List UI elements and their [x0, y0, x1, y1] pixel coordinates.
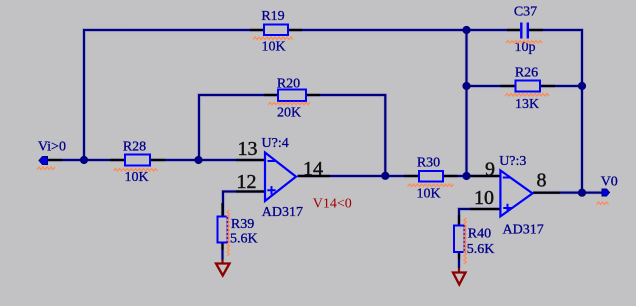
svg-text:20K: 20K — [277, 106, 301, 121]
squiggle under port Vi — [37, 167, 55, 170]
pin lead 9 of U?:3 — [470, 175, 500, 177]
svg-text:Vi>0: Vi>0 — [38, 140, 66, 155]
wire halo R26 line — [467, 84, 583, 88]
svg-text:13K: 13K — [515, 97, 539, 112]
svg-text:AD317: AD317 — [262, 205, 303, 220]
label Vi>0 — [38, 140, 66, 155]
op-amp U?:3 — [500, 170, 532, 216]
svg-text:12: 12 — [237, 171, 257, 193]
value 10K of R30 — [416, 186, 440, 201]
junction node X top — [462, 26, 470, 34]
wire R20 feedback branch — [199, 95, 385, 176]
label R19 — [261, 9, 284, 24]
wire R40 to ground — [458, 252, 460, 268]
value 10K of R19 — [261, 39, 285, 54]
capacitor C37 — [521, 23, 528, 39]
svg-text:9: 9 — [485, 159, 495, 181]
wire halo pin12 branch — [223, 192, 266, 261]
svg-text:10K: 10K — [124, 170, 148, 185]
svg-text:V14<0: V14<0 — [313, 196, 352, 211]
pin lead R19 — [250, 29, 302, 31]
pin lead 14 of U?:4 — [298, 175, 331, 177]
port Vi>0 — [39, 157, 48, 165]
resistor R19 — [264, 25, 288, 36]
resistor R26 — [516, 81, 541, 92]
label U?:3 — [499, 154, 526, 169]
resistor R28 — [125, 155, 150, 166]
value 5.6K of R40 — [467, 242, 495, 257]
label R40 — [468, 227, 491, 242]
pin number 13 — [238, 138, 258, 160]
squiggle under R19 — [253, 37, 293, 40]
label U?:4 — [262, 136, 289, 151]
svg-text:10: 10 — [474, 187, 494, 209]
value 20K of R20 — [277, 106, 301, 121]
label R30 — [417, 155, 440, 170]
pin lead 12 of U?:4 — [236, 190, 265, 192]
pin lead R40 — [458, 215, 460, 259]
pin number 14 — [303, 158, 323, 180]
pin number 10 — [474, 187, 494, 209]
squiggle under R20 — [268, 102, 310, 105]
pin lead R26 — [501, 85, 556, 87]
svg-text:10K: 10K — [261, 39, 285, 54]
pin number 8 — [537, 170, 547, 192]
svg-text:R19: R19 — [261, 9, 284, 24]
label AD317 of U?:4 — [262, 205, 303, 220]
svg-text:R39: R39 — [231, 217, 254, 232]
label R20 — [277, 77, 300, 92]
wire halo input line — [47, 158, 265, 162]
value 5.6K of R39 — [230, 232, 258, 247]
wire input line from port Vi to pin 13 — [47, 159, 265, 161]
value 10p of C37 — [515, 40, 536, 55]
ground below R40 — [453, 268, 466, 285]
wire halo mid vertical — [464, 30, 468, 176]
pin lead R20 — [264, 94, 320, 96]
svg-text:14: 14 — [303, 158, 323, 180]
pin lead C37 — [507, 29, 543, 31]
wire pin12 to R39 — [223, 192, 265, 217]
squiggle under R28 — [114, 169, 158, 172]
label C37 — [514, 4, 537, 19]
pin lead R30 — [404, 175, 458, 177]
resistor R20 — [278, 90, 306, 102]
ground below R39 — [216, 260, 230, 276]
resistor R39 — [218, 217, 228, 243]
junction node X at pin 9 — [462, 172, 470, 180]
op-amp U?:4 — [265, 153, 296, 202]
wire output1 to R30 to pin 9 — [298, 175, 501, 177]
svg-text:R40: R40 — [468, 227, 491, 242]
port V0 — [602, 189, 610, 196]
resistor R40 — [454, 226, 465, 253]
svg-text:R20: R20 — [277, 77, 300, 92]
svg-text:U?:3: U?:3 — [499, 154, 526, 169]
squiggle under C37 — [506, 41, 542, 44]
junction at input node — [80, 156, 88, 164]
svg-text:5.6K: 5.6K — [230, 232, 258, 247]
label V0 — [601, 174, 618, 189]
svg-text:13: 13 — [238, 138, 258, 160]
svg-text:R26: R26 — [515, 66, 538, 81]
squiggle beside R40 — [464, 218, 467, 264]
svg-text:C37: C37 — [514, 4, 537, 19]
junction output node at R26 — [578, 82, 586, 90]
pin lead 13 of U?:4 — [236, 159, 265, 161]
svg-text:U?:4: U?:4 — [262, 136, 289, 151]
label AD317 of U?:3 — [503, 223, 544, 238]
pin lead 10 of U?:3 — [470, 208, 500, 210]
squiggle under port V0 — [597, 202, 609, 205]
label R39 — [231, 217, 254, 232]
wire top feedback from input node through R19, C37 to right vertical — [84, 30, 582, 192]
wire R26 line — [467, 85, 583, 87]
pin lead R39 — [221, 203, 223, 250]
wire output2 to port V0 — [533, 192, 602, 194]
value 10K of R28 — [124, 170, 148, 185]
wire halo output2 line — [533, 191, 602, 195]
value 13K of R26 — [515, 97, 539, 112]
pin lead R28 — [110, 159, 165, 161]
svg-text:R28: R28 — [123, 140, 146, 155]
svg-text:AD317: AD317 — [503, 223, 544, 238]
label R28 — [123, 140, 146, 155]
junction at R20 tap — [194, 156, 202, 164]
svg-text:V0: V0 — [601, 174, 618, 189]
wire halo output1 line — [298, 174, 501, 178]
wire halo top feedback — [84, 30, 582, 192]
annotation V14<0 — [313, 196, 352, 211]
wire halo R20 branch — [199, 95, 385, 176]
svg-text:5.6K: 5.6K — [467, 242, 495, 257]
svg-text:R30: R30 — [417, 155, 440, 170]
resistor R30 — [419, 171, 443, 182]
wire halo pin10 branch — [459, 209, 500, 268]
svg-text:10K: 10K — [416, 186, 440, 201]
pin number 9 — [485, 159, 495, 181]
wire R39 to ground — [221, 243, 223, 261]
label R26 — [515, 66, 538, 81]
svg-text:8: 8 — [537, 170, 547, 192]
squiggle beside R39 — [227, 210, 230, 256]
wire mid vertical node X — [465, 30, 467, 176]
squiggle under R26 — [505, 94, 549, 97]
wire pin10 to R40 — [459, 209, 500, 226]
junction node X at R26 — [462, 82, 470, 90]
junction output node at V0 — [578, 189, 586, 197]
pin lead port Vi — [47, 159, 62, 161]
pin number 12 — [237, 171, 257, 193]
squiggle under R30 — [408, 184, 454, 187]
junction at output1 node — [381, 172, 389, 180]
pin lead 8 of U?:3 — [533, 192, 560, 194]
